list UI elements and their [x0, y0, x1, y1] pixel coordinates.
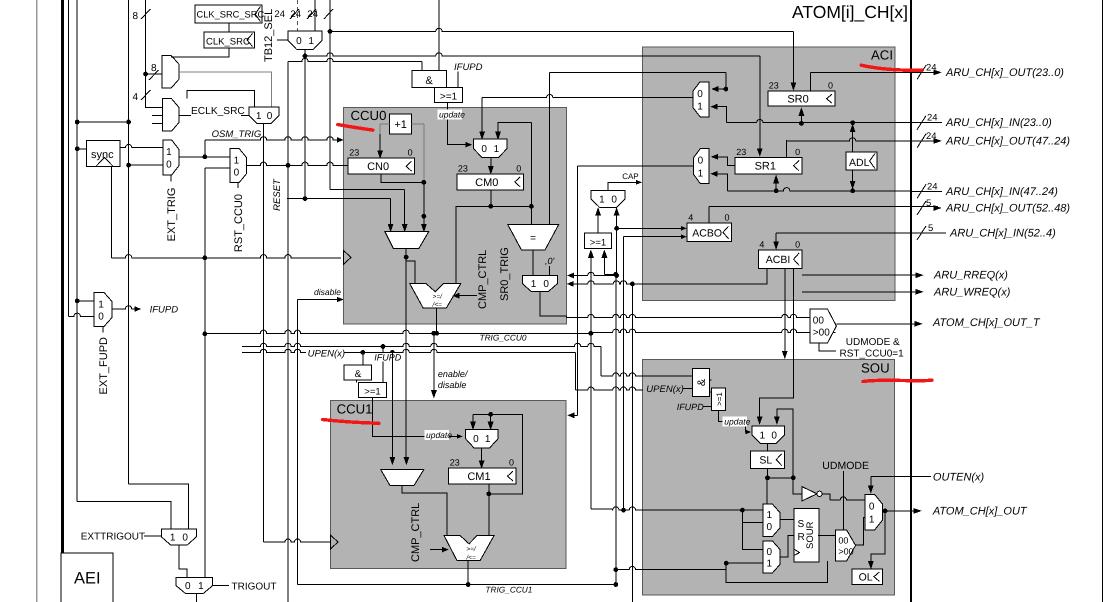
svg-text:CCU0: CCU0 [351, 108, 387, 123]
wire acbi to sr0trig mux [567, 281, 632, 287]
wire muxa out S [780, 519, 794, 521]
svg-text:>=1: >=1 [364, 386, 380, 397]
row upen2 [344, 349, 576, 390]
svg-text:1: 1 [767, 510, 773, 521]
clock mux lower [162, 99, 179, 132]
svg-text:ARU_CH[x]_IN(23..0): ARU_CH[x]_IN(23..0) [945, 117, 1052, 129]
wire sr0mux in0riser [712, 72, 728, 91]
mux CCU1 pair [381, 470, 424, 486]
svg-text:ATOM_CH[x]_OUT: ATOM_CH[x]_OUT [932, 506, 1028, 518]
svg-text:0: 0 [98, 311, 104, 322]
wire comp1 out TRIG_CCU1 [466, 561, 471, 587]
node fupd in1 [75, 299, 94, 304]
svg-text:0: 0 [543, 279, 549, 290]
mux SR1sel [693, 148, 709, 183]
comparator CCU0 [410, 284, 461, 309]
slash 4 [132, 90, 150, 103]
label enable disable [438, 369, 469, 390]
svg-text:0: 0 [267, 111, 273, 122]
wire sr0mux in1 [711, 104, 726, 123]
wire cap or out [596, 208, 601, 233]
gate OR ccu1 [359, 383, 387, 398]
svg-text:0: 0 [869, 502, 875, 513]
mux CCU0 cnt [385, 232, 429, 249]
wire 8-bit clk vertical [145, 0, 147, 74]
row upen [242, 349, 306, 352]
wire upen drop [362, 352, 364, 365]
mux EXT_TRIG [163, 140, 179, 175]
svg-text:24: 24 [290, 9, 301, 20]
wire sou mux1 out [767, 443, 769, 450]
svg-text:+1: +1 [394, 119, 407, 131]
wire acbo in2 [624, 235, 687, 239]
svg-text:RESET: RESET [272, 178, 283, 211]
mux SOU update [752, 426, 785, 443]
wire sou mux1 in0 [774, 409, 793, 478]
svg-text:1: 1 [308, 36, 314, 47]
svg-text:UDMODE &: UDMODE & [846, 337, 900, 348]
row 275 left [568, 272, 617, 278]
wire ccu1pair out [402, 486, 447, 536]
wire sr1mux in0 [712, 154, 736, 165]
mux EXT_FUPD [94, 293, 112, 327]
wire sr0 write [799, 108, 804, 126]
red mark CCU1 [323, 420, 379, 424]
module right border [910, 0, 912, 602]
label RESET [272, 178, 283, 211]
register SR0 [768, 81, 835, 107]
wire cm1 to comparator [488, 494, 490, 536]
svg-text:24: 24 [926, 62, 937, 73]
dashed tb12 line [297, 0, 299, 31]
svg-text:0: 0 [185, 581, 191, 592]
svg-text:1: 1 [234, 155, 240, 166]
svg-text:1: 1 [760, 430, 766, 441]
svg-text:OL: OL [859, 572, 873, 584]
label TRIG_CCU0 [480, 333, 527, 343]
node tb12 out junction [303, 54, 308, 59]
wire ADL down [850, 120, 855, 193]
svg-text:,0': ,0' [545, 256, 555, 266]
svg-text:1: 1 [98, 299, 104, 310]
svg-text:RST_CCU0=1: RST_CCU0=1 [840, 349, 905, 360]
svg-text:0: 0 [611, 195, 617, 206]
svg-text:CM1: CM1 [467, 471, 490, 483]
wire acbo in1 [614, 226, 686, 231]
label update sou [723, 417, 751, 427]
svg-text:ECLK_SRC: ECLK_SRC [191, 106, 245, 117]
wire cmp_ctrl arrow ccu1 [430, 547, 448, 552]
svg-text:>00: >00 [838, 547, 853, 557]
wire sr1mux out [568, 166, 693, 418]
svg-text:OSM_TRIG: OSM_TRIG [212, 129, 262, 140]
svg-text:&: & [696, 378, 708, 386]
svg-text:TRIG_CCU0: TRIG_CCU0 [480, 333, 527, 343]
wire v623 riser [623, 237, 625, 510]
label ARU_OUT52 [917, 198, 1070, 215]
inverter [802, 487, 822, 501]
wire CN0 loop [381, 124, 424, 182]
wire update sou [718, 410, 750, 434]
svg-text:ARU_CH[x]_OUT(23..0): ARU_CH[x]_OUT(23..0) [945, 67, 1064, 79]
label ARU_OUT23 [917, 62, 1064, 79]
svg-text:CM0: CM0 [475, 177, 498, 189]
svg-text:23: 23 [349, 148, 359, 158]
register CN0 [348, 148, 414, 175]
rail line c [76, 0, 78, 501]
gate AND sou [692, 368, 709, 396]
svg-text:0: 0 [516, 163, 521, 173]
wire acbi outs down [782, 268, 793, 359]
box CLK_SRC [204, 32, 255, 48]
svg-text:ARU_CH[x]_IN(52..4): ARU_CH[x]_IN(52..4) [949, 228, 1056, 240]
wire trigout in1 [0, 0, 1, 1]
mux EXTTRIGOUT [161, 529, 196, 545]
wire cap out [608, 180, 641, 190]
svg-text:ATOM_CH[x]_OUT_T: ATOM_CH[x]_OUT_T [932, 317, 1041, 329]
label UPEN sou [646, 384, 692, 395]
svg-text:24: 24 [926, 131, 937, 142]
rail line d [128, 0, 130, 484]
register SL [750, 451, 784, 469]
label OUTEN [933, 472, 985, 484]
wire exttrig in1 [77, 501, 171, 529]
wire ccu1mux out [479, 448, 484, 468]
svg-text:1: 1 [256, 111, 262, 122]
svg-text:1: 1 [531, 279, 537, 290]
svg-text:&: & [355, 369, 362, 380]
svg-text:CAP: CAP [622, 172, 638, 181]
label ATOM_OUT_T [932, 317, 1041, 329]
wire ccu1 input left [390, 352, 395, 464]
register CM1 [449, 458, 516, 484]
svg-text:/<=: /<= [432, 302, 443, 309]
wire +1 to CN0 [378, 124, 390, 158]
title ATOM[i]_CH[x] [792, 2, 908, 22]
svg-text:CLK_SRC_SRC: CLK_SRC_SRC [197, 10, 265, 20]
wire row189 mux input2 [330, 31, 407, 231]
svg-text:&: & [425, 75, 433, 87]
row ifupd A [242, 343, 601, 382]
svg-text:TB12_SEL: TB12_SEL [263, 9, 275, 62]
wire cm1 loop [470, 412, 522, 496]
svg-text:5: 5 [926, 198, 931, 209]
svg-text:8: 8 [151, 63, 157, 74]
label RST_CCU0 [233, 183, 245, 252]
wire ccu0 mux out [404, 249, 409, 465]
chevron into CCU0 [343, 250, 351, 264]
register SOUR [794, 509, 819, 562]
svg-text:ARU_CH[x]_OUT(47..24): ARU_CH[x]_OUT(47..24) [945, 135, 1070, 147]
row ARU_IN23 [911, 113, 1052, 130]
wire sr1 bus [727, 188, 911, 191]
row TRIG_CCU0 [205, 329, 836, 336]
wire SL out [765, 469, 796, 481]
svg-text:0: 0 [473, 434, 479, 445]
svg-text:4: 4 [132, 92, 138, 103]
clock mux upper [162, 56, 179, 88]
wire trig0 into sou [591, 333, 612, 509]
wire cap or in1 [588, 250, 593, 333]
comparator EQ [508, 225, 559, 250]
slashes 24/24/24 [274, 9, 333, 20]
svg-text:EXT_TRIG: EXT_TRIG [166, 188, 178, 242]
wire clkmux1 out [179, 72, 272, 107]
gate OR sou [711, 388, 725, 411]
wire CLK_SRC down elbow [171, 48, 228, 57]
mux SOU B [763, 541, 780, 573]
wire exttrig out [179, 545, 187, 578]
svg-text:UPEN(x): UPEN(x) [646, 384, 683, 395]
wire v288 [287, 62, 289, 602]
row sr0 bus [726, 119, 911, 122]
svg-text:IFUPD: IFUPD [454, 62, 483, 73]
label TRIGOUT [213, 581, 277, 592]
wire trigout tail [196, 594, 198, 602]
register SR1 [735, 147, 802, 174]
svg-text:=: = [530, 233, 536, 244]
wire exttrig in0 [129, 484, 189, 529]
svg-text:1: 1 [767, 559, 773, 570]
wire rst_ccu0 out row165 [247, 164, 248, 166]
svg-text:24: 24 [274, 9, 285, 20]
mux ECLK_SRC [249, 107, 279, 123]
pent sou [835, 530, 855, 561]
label ARU_WREQ [933, 286, 1011, 298]
svg-text:AEI: AEI [74, 570, 101, 588]
node ext_trig out [179, 154, 230, 159]
svg-text:8: 8 [132, 11, 138, 22]
svg-text:disable: disable [438, 380, 467, 390]
svg-text:ATOM[i]_CH[x]: ATOM[i]_CH[x] [792, 2, 908, 22]
register CM0 [457, 163, 523, 190]
wire udmode down [842, 471, 844, 530]
svg-text:SOUR: SOUR [805, 521, 816, 549]
svg-text:EXT_FUPD: EXT_FUPD [98, 337, 110, 395]
label IFUPD sou [677, 402, 712, 412]
wire and-or sou [710, 380, 712, 392]
label ECLK_SRC [191, 106, 245, 117]
wire inv out [822, 494, 865, 500]
pent outt [810, 309, 837, 343]
register ACBI [758, 240, 802, 269]
svg-text:23: 23 [736, 147, 746, 157]
row sr0trig to sou [567, 314, 810, 317]
row disable [298, 297, 344, 302]
gate OR cap [585, 233, 612, 249]
node CN0 out [422, 180, 427, 185]
wire rst0 input [205, 168, 230, 258]
wire row56 to SR1 [305, 53, 762, 156]
slash 8 mid [149, 63, 159, 80]
svg-text:1: 1 [166, 147, 172, 158]
svg-text:0: 0 [296, 36, 302, 47]
svg-text:ADL: ADL [849, 157, 870, 169]
svg-text:0: 0 [408, 148, 413, 158]
wire cm0 loop [495, 123, 533, 225]
svg-text:1: 1 [485, 434, 491, 445]
mux SOU out [865, 494, 882, 530]
svg-text:CMP_CTRL: CMP_CTRL [410, 503, 422, 562]
svg-text:1: 1 [698, 168, 704, 179]
wire IFUPD out [112, 306, 140, 312]
wire clkmux2 stubs [152, 116, 162, 124]
left page border line [36, 0, 38, 602]
svg-text:disable: disable [314, 287, 341, 297]
label EXT_TRIG [166, 175, 178, 241]
wire sl to muxa [766, 478, 768, 504]
node muxa dots [621, 508, 745, 513]
wire update out down [447, 103, 471, 147]
wire eq out [532, 250, 534, 276]
gate U-AND [412, 70, 447, 87]
svg-text:0: 0 [166, 160, 172, 171]
svg-text:IFUPD: IFUPD [150, 305, 179, 316]
svg-text:24: 24 [307, 9, 318, 20]
label ARU_OUT47 [917, 131, 1070, 148]
chevron into CCU1 [330, 535, 338, 549]
svg-text:S: S [798, 519, 805, 530]
wire to inverter [793, 478, 802, 494]
svg-text:>=1: >=1 [440, 92, 458, 103]
label update ccu0 [437, 109, 465, 119]
svg-text:SOU: SOU [861, 361, 890, 376]
svg-text:0: 0 [795, 240, 800, 250]
wire outt out [836, 321, 922, 326]
red mark ACI [861, 65, 922, 70]
node clk8 junction [143, 72, 148, 77]
svg-text:ARU_WREQ(x): ARU_WREQ(x) [933, 286, 1011, 298]
register OL [852, 569, 883, 584]
label UDMODE sou [822, 460, 869, 472]
wire 24 bus right vertical [329, 0, 331, 31]
wire pent2 out [856, 518, 866, 546]
wire sr0 read bus [549, 72, 551, 224]
label UDMODE RST [819, 337, 904, 360]
label TRIG_CCU1 [485, 584, 532, 594]
svg-text:enable/: enable/ [438, 369, 469, 379]
svg-text:0: 0 [795, 147, 800, 157]
svg-text:update: update [426, 430, 452, 440]
wire pent2 loop [726, 561, 827, 583]
svg-text:>00: >00 [813, 328, 830, 339]
wire outen [868, 477, 931, 493]
far right frame line [1101, 0, 1103, 602]
label CAP [622, 172, 638, 181]
svg-text:SR1: SR1 [755, 161, 776, 173]
svg-text:0: 0 [697, 89, 703, 100]
mux TB12_SEL [288, 31, 322, 50]
label CMP_CTRL ccu0 [477, 250, 489, 309]
box ADL [846, 152, 877, 170]
wire muxa in0 [742, 510, 762, 522]
wire sr0mux out to cm0mux [480, 94, 693, 139]
wire trig_ccu1 riser [297, 300, 299, 585]
label EXT_FUPD [98, 326, 110, 394]
wire clkmux2 loop [187, 91, 255, 108]
wire capmux in2 [614, 208, 619, 278]
wire tb12 out [304, 50, 306, 199]
block CCU0 [343, 107, 566, 324]
svg-text:ACBI: ACBI [766, 254, 791, 266]
svg-text:00: 00 [838, 535, 848, 545]
wire acbi in [774, 233, 912, 249]
wire sr1 write [774, 176, 779, 194]
svg-text:24: 24 [927, 113, 938, 124]
mux SOU A [763, 504, 780, 537]
svg-text:ARU_CH[x]_OUT(52..48): ARU_CH[x]_OUT(52..48) [945, 203, 1070, 215]
box AEI [61, 553, 113, 602]
svg-text:ARU_RREQ(x): ARU_RREQ(x) [933, 270, 1008, 282]
block SOU [642, 360, 894, 596]
svg-text:0: 0 [724, 213, 729, 223]
row ARU_IN52 [911, 223, 1056, 240]
svg-text:ACI: ACI [871, 48, 893, 63]
register ACBO [687, 213, 731, 242]
svg-text:SR0: SR0 [787, 94, 808, 106]
svg-text:4: 4 [688, 213, 693, 223]
node sync in [75, 146, 87, 151]
row upen sou [601, 373, 693, 376]
mux CM0 update [473, 139, 507, 157]
box sync [86, 141, 120, 167]
wire CLK_SRC_SRC to CLK_SRC [228, 23, 230, 32]
wire update ccu1 [373, 397, 462, 438]
box +1 [390, 114, 412, 134]
wire ext_trig 0 input [126, 163, 163, 168]
gate AND ccu1 [344, 365, 372, 380]
svg-text:>=1: >=1 [590, 238, 606, 249]
wire and to or [356, 380, 358, 383]
svg-text:TRIGOUT: TRIGOUT [232, 581, 277, 592]
block CCU1 [330, 400, 565, 568]
wire sour out [818, 534, 835, 536]
svg-text:0: 0 [767, 547, 773, 558]
wire sr1mux in1 [711, 171, 727, 191]
row ARU_IN47 [911, 181, 1058, 198]
red mark SOU [863, 380, 932, 381]
wire update trigger vertical [438, 0, 440, 70]
wire row165 CN0 input [247, 162, 349, 168]
svg-text:0: 0 [481, 144, 487, 155]
wire row61 to and gate [288, 58, 422, 70]
svg-text:23: 23 [450, 458, 460, 468]
label EXTTRIGOUT [81, 532, 162, 543]
label TB12_SEL [263, 9, 288, 62]
svg-text:>=/: >=/ [433, 294, 444, 301]
label quote0 [545, 256, 555, 276]
svg-text:/<=: /<= [465, 554, 476, 561]
label ARU_RREQ [933, 270, 1008, 282]
gate U-OR >=1 [434, 87, 462, 102]
svg-text:0: 0 [767, 522, 773, 533]
rail line a [68, 0, 70, 316]
mux RST_CCU0 [230, 149, 247, 183]
wire row31 to SR0 [330, 28, 796, 90]
svg-text:1: 1 [198, 581, 204, 592]
svg-text:CN0: CN0 [367, 161, 389, 173]
label SR0_TRIG [499, 247, 511, 301]
wire cmp_ctrl arrow ccu0 [453, 293, 477, 298]
svg-text:CMP_CTRL: CMP_CTRL [477, 250, 489, 309]
svg-text:1: 1 [697, 102, 703, 113]
svg-text:0: 0 [771, 430, 777, 441]
label disable [314, 287, 341, 297]
wire acbi to row283 [630, 268, 767, 286]
svg-text:23: 23 [458, 163, 468, 173]
wire sr0trig out [540, 292, 567, 316]
mux SR0_TRIG [522, 276, 557, 292]
